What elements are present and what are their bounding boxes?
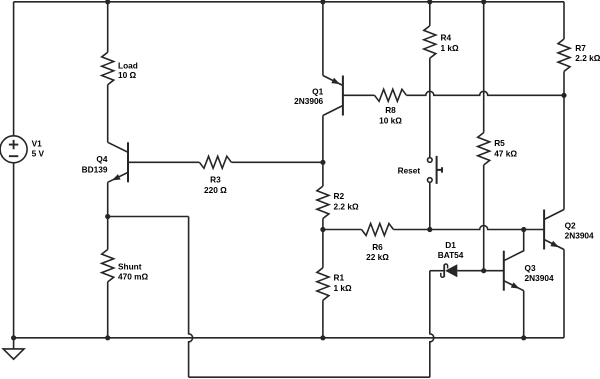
svg-text:Reset: Reset [398,166,421,176]
resistor Load [102,52,114,84]
junction R6 rail / Q3 collector [521,227,526,232]
svg-text:22 kΩ: 22 kΩ [366,252,389,262]
junction Reset / R6 rail [427,227,432,232]
svg-text:BD139: BD139 [82,164,108,174]
transistor Q1 bar [342,76,344,116]
junction top rail / R4 [427,0,432,4]
wire R3 to Q1 collector rail [231,161,323,163]
svg-text:R7: R7 [575,43,586,53]
svg-text:D1: D1 [445,240,456,250]
transistor Q3 emitter lead [504,281,524,291]
transistor Q1 emitter arrow [331,78,340,84]
svg-text:V1: V1 [32,138,43,148]
junction shunt / ground bus [105,335,110,340]
resistor R3 [199,156,231,168]
wire D1 cathode drop with hop over ground bus [430,271,434,378]
svg-text:BAT54: BAT54 [438,250,464,260]
svg-text:R3: R3 [210,175,221,185]
switch Reset actuator [437,156,442,184]
svg-text:470 mΩ: 470 mΩ [118,272,149,282]
wire Load to Q4 collector [107,85,109,143]
svg-text:10 kΩ: 10 kΩ [379,115,402,125]
junction R3 / Q1 collector [320,160,325,165]
svg-text:Shunt: Shunt [118,261,142,271]
resistor R2 [317,186,329,218]
svg-text:2.2 kΩ: 2.2 kΩ [334,202,359,212]
wire R4 to Reset [429,58,431,158]
svg-text:Q3: Q3 [525,263,536,273]
resistor R6 [362,224,394,236]
wire top rail to R5 [483,2,485,133]
wire R6 node to R6 [323,229,362,231]
transistor Q2 bar [543,210,545,250]
diode D1 schottky hooks [441,264,448,277]
transistor Q3 bar [503,251,505,291]
svg-text:R4: R4 [441,33,452,43]
transistor Q4 bar [127,142,129,182]
svg-text:2.2 kΩ: 2.2 kΩ [575,53,600,63]
voltage source V1 [0,136,27,163]
svg-text:R1: R1 [334,273,345,283]
wire ground bus [14,337,564,339]
wire top rail to Q1 emitter [322,2,324,76]
wire left rail upper (V1 to top rail) [13,2,15,136]
wire Shunt to ground bus [107,282,109,338]
svg-text:1 kΩ: 1 kΩ [334,283,353,293]
junction top rail / Q1 emitter [320,0,325,4]
wire Q4 emitter down [107,182,109,216]
transistor Q1 emitter lead [323,76,343,86]
wire R7 to R8 node [563,71,565,95]
wire top rail to R7 [563,2,565,39]
svg-text:2N3904: 2N3904 [565,231,594,241]
wire R5 to D1 node [483,165,485,271]
junction R8 / right rail [561,93,566,98]
wire R8 to right rail with hops [407,91,565,95]
wire top rail to R4 [429,2,431,26]
svg-text:10 Ω: 10 Ω [118,70,137,80]
transistor Q4 emitter lead [108,172,128,182]
junction left rail / ground bus [11,335,16,340]
wire link vertical with hop over ground bus [189,217,193,378]
junction R2 / R1 / R6 [320,227,325,232]
resistor R8 [375,89,407,101]
junction top rail / R5 [481,0,486,4]
svg-text:2N3904: 2N3904 [525,273,554,283]
svg-text:R6: R6 [372,242,383,252]
svg-text:5 V: 5 V [32,149,45,159]
svg-text:R8: R8 [385,105,396,115]
junction R1 / ground bus [320,335,325,340]
svg-text:47 kΩ: 47 kΩ [494,149,517,159]
wire Q3 base [484,270,504,272]
svg-text:220 Ω: 220 Ω [204,185,227,195]
svg-text:Q1: Q1 [312,86,323,96]
svg-text:R2: R2 [334,191,345,201]
resistor R5 [478,133,490,165]
svg-text:Q2: Q2 [565,221,576,231]
transistor Q2 emitter arrow [550,241,559,247]
svg-text:2N3906: 2N3906 [294,96,323,106]
wire emitter node to Shunt [107,217,109,250]
junction D1 / R5 / Q3 base [481,268,486,273]
svg-text:1 kΩ: 1 kΩ [441,43,460,53]
wire emitter node to link [108,216,189,218]
wire Q1 collector down [322,116,324,163]
diode D1 cathode bar [443,265,445,277]
resistor R7 [558,39,570,71]
transistor Q4 collector lead [108,142,128,152]
svg-text:Q4: Q4 [96,154,107,164]
wire Q4 base to R3 [128,161,199,163]
wire top rail to Load [107,2,109,53]
wire D1 anode to node [457,270,483,272]
junction top rail / load [105,0,110,4]
wire R6 to Q2 base with hop [394,226,545,230]
resistor R4 [424,26,436,58]
svg-text:R5: R5 [494,138,505,148]
wire left rail lower (V1 to ground bus) [13,163,15,338]
resistor Shunt [102,250,114,282]
switch Reset terminal circles [428,158,433,183]
transistor Q2 collector lead [544,210,564,220]
wire Reset to R6 rail [429,182,431,229]
wire Q1 collector to R2 [322,162,324,186]
transistor Q4 emitter arrow [112,174,121,180]
wire top supply rail [14,1,564,3]
transistor Q3 emitter arrow [511,282,520,288]
wire Q3 emitter to ground bus [523,291,525,338]
diode D1 triangle [445,264,457,277]
transistor Q3 collector lead [504,230,524,261]
wire Q1 base to R8 [343,94,375,96]
wire R6 node to R1 [322,230,324,268]
transistor Q1 collector lead [323,106,343,116]
wire R2 to R6 node [322,219,324,230]
resistor R1 [317,268,329,300]
junction Q4 emitter node [105,214,110,219]
wire bottom rail [189,376,430,378]
wire D1 cathode to corner [430,270,444,272]
wire R1 to ground bus [322,300,324,338]
wire R8 node to Q2 collector [563,95,565,209]
transistor Q2 emitter lead [544,240,564,250]
wire Q2 emitter to ground bus [563,250,565,338]
ground [3,338,24,359]
junction Q3 emitter / ground bus [521,335,526,340]
